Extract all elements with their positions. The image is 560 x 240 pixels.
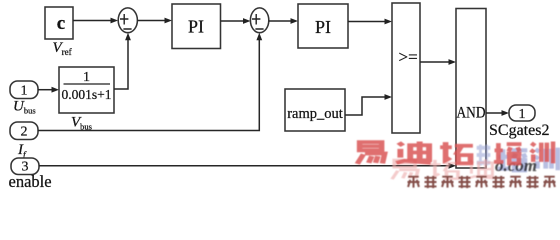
- wire AND to output port: [486, 110, 509, 116]
- sum junction S2: [250, 8, 268, 33]
- svg-text:PI: PI: [315, 17, 331, 37]
- ramp_out block: [285, 89, 345, 131]
- output port 1 SCgates2: [509, 105, 535, 122]
- watermark big red text yi di tuo pei xun: [357, 142, 384, 164]
- watermark blue shadow glyphs behind pei/xun: [498, 149, 527, 170]
- PI controller U1: [172, 4, 221, 49]
- constant block c (Vref): [45, 7, 73, 39]
- svg-text:1: 1: [83, 70, 90, 85]
- svg-text:>=: >=: [399, 48, 418, 67]
- wire PI1 to sum2: [221, 18, 251, 24]
- svg-text:o.com: o.com: [495, 156, 537, 175]
- wire relational operator to AND: [420, 59, 456, 65]
- input port 1 Ubus: [10, 81, 38, 99]
- input port 3 enable: [11, 158, 39, 175]
- svg-text:1: 1: [21, 84, 28, 99]
- svg-text:AND: AND: [457, 105, 486, 122]
- svg-text:1: 1: [519, 107, 526, 122]
- watermark second line she pin he tian xian she ji zhuan jia: [408, 177, 420, 188]
- svg-text:ramp_out: ramp_out: [287, 106, 343, 122]
- svg-text:SCgates2: SCgates2: [489, 122, 549, 139]
- PI controller U2: [298, 4, 348, 48]
- wire If to sum2 minus input: [38, 33, 262, 131]
- wire c to sum1: [73, 18, 118, 24]
- svg-text:c: c: [57, 13, 65, 34]
- watermark pink outline shapes: [392, 160, 418, 179]
- svg-text:PI: PI: [188, 17, 204, 37]
- wire port1 to transfer fn: [38, 87, 59, 93]
- watermark blue small glyph dian: [477, 144, 491, 165]
- wire ramp_out to relational operator: [345, 94, 392, 115]
- svg-text:2: 2: [21, 125, 28, 140]
- wire Vbus feedback to sum1 minus input: [114, 33, 131, 89]
- relational operator block >=: [392, 3, 420, 133]
- input port 2 If: [10, 122, 38, 140]
- logical operator block AND: [456, 9, 486, 169]
- wire enable to AND block: [39, 163, 456, 169]
- wire sum2 to PI2: [269, 18, 298, 24]
- wire sum1 to PI1: [137, 18, 172, 24]
- wire PI2 to relational operator: [348, 19, 392, 25]
- svg-text:0.001s+1: 0.001s+1: [62, 87, 112, 102]
- svg-text:enable: enable: [9, 172, 52, 191]
- transfer function block Vbus filter: [59, 67, 114, 113]
- sum junction S1: [118, 8, 137, 33]
